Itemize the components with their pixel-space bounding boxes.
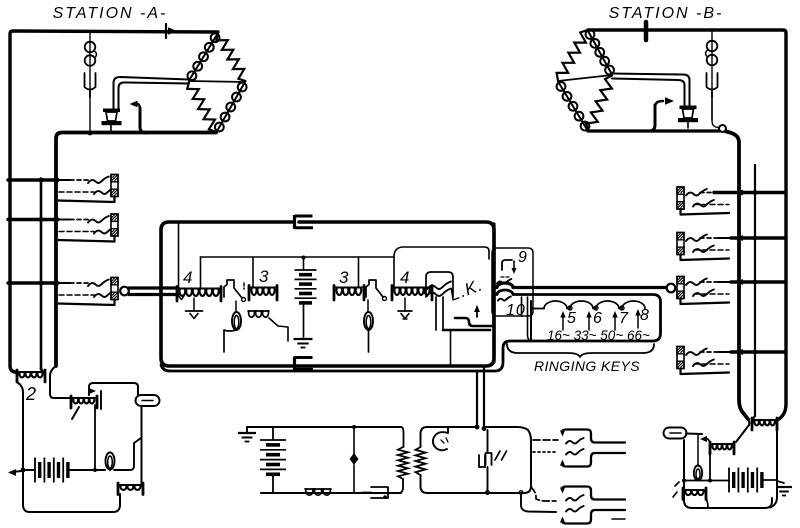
wire loop left A set [17,382,120,512]
svg-text:7: 7 [619,310,629,327]
svg-text:10: 10 [506,302,526,319]
contact mid vertical [350,427,359,493]
arrow on station A line [166,24,177,38]
wire phone A down to line [140,108,146,133]
wire bridge B diagonal [558,75,612,81]
ground battery [294,339,313,348]
svg-text:6: 6 [593,310,603,327]
coil A set lower right [118,483,143,495]
relay B1 coil [710,442,734,454]
wire bottom bottom-left circuit [261,492,401,494]
transmitter B [678,106,698,129]
receiver hook 11 [433,427,448,450]
transmitter A [102,109,122,132]
bus B x755 [754,165,756,416]
generator A [35,458,68,483]
drop 4R [393,257,395,288]
relay contact mid [366,280,387,301]
feeder B jack2 [731,235,786,241]
feeder B jack1 [714,190,786,196]
key10 drop a [521,297,523,316]
wire hook B right [686,433,702,436]
thin line top right [394,247,489,259]
wire box bottom pair b [483,366,485,430]
ground B set [776,481,792,496]
jack B2 [677,233,731,261]
receiver B [707,73,718,97]
wire line1 B [588,129,719,132]
label L.K. [447,275,486,305]
bus A x41 [40,180,43,369]
wire 11 to fork1 a [533,439,558,441]
drop 3L [252,257,254,288]
svg-text:3: 3 [339,268,349,287]
jack A2 [57,214,118,242]
main vertical right of box [492,224,495,362]
drop 4L a [178,224,180,288]
contact ticks B2 [673,482,679,497]
bus inside box [201,256,395,258]
feeder A jack3 [8,280,59,286]
wire top bottom-left circuit [247,425,401,429]
label 4 left [183,268,193,287]
svg-text:9: 9 [518,249,528,266]
label 2 [25,384,37,404]
jack A1 [57,175,118,203]
plug circle B [667,284,676,293]
wire 11 to fork1 b [533,451,556,453]
svg-text:RINGING KEYS: RINGING KEYS [534,358,640,374]
wire bus739 to relayB1 [736,419,749,442]
key 9 symbol [501,260,517,277]
wire bus10 into relay2 [10,366,17,373]
wire bus41 into relay2 [41,369,43,372]
contact 10 [498,297,511,301]
label 1 slash [72,407,79,419]
arrow generator A [8,469,22,476]
capacitor box bottom [295,357,314,371]
coil bridge A bottom-right arm [215,82,247,132]
thick jog lower [443,329,490,332]
svg-text:3: 3 [259,267,269,286]
key10 drop b [528,297,532,341]
key arrows [560,309,640,330]
svg-text:STATION -A-: STATION -A- [53,5,168,22]
small coil left [248,311,269,317]
label 11 slashes [495,451,507,460]
coil 4R [392,286,432,301]
hook arrow phone A [130,101,141,109]
brace ringing keys [507,344,654,357]
feeder A jack2 [8,217,59,223]
thick jog upper [455,318,492,326]
label 5 [567,310,577,327]
feeder B jack3 [731,279,786,285]
svg-text:16~ 33~ 50~ 66~: 16~ 33~ 50~ 66~ [547,328,650,343]
wire hook down A set [141,407,143,486]
label 10 [506,302,526,319]
wire lamp bottom B [682,479,729,483]
jack B1 [677,187,731,215]
svg-text:8: 8 [640,307,650,324]
hook arrow phone B [655,97,674,107]
vertical in 11 box [487,430,489,491]
coil B2 [683,488,706,500]
tick on station B line [644,22,649,40]
plug dot B line [719,125,726,132]
lamp B set [694,435,702,481]
hook switch circles B [706,41,718,66]
key 9 10 box [492,248,533,316]
ringing key contacts [531,301,645,310]
wire relay1 over to hook [89,383,138,396]
wire relay1 down [94,405,96,470]
wire cord A ring [129,293,178,296]
wire bus56 into relay1 [50,366,70,398]
relay 2 coil [17,370,45,382]
jack B3 [677,277,731,305]
arrow cluster [474,305,480,317]
capacitor box top [295,215,314,229]
drop 4L b [179,257,201,300]
svg-text:2: 2 [25,384,37,404]
wire coilALR to loop [119,494,121,505]
relay contact left [224,280,246,302]
repeater box outline [161,222,494,366]
label RINGING KEYS [534,358,640,374]
label 3 left [259,267,269,286]
wire phone B down to line [649,105,655,131]
contact squiggles right [427,282,451,297]
drop battery [302,256,306,271]
label 8 [640,307,650,324]
svg-text:5: 5 [567,310,577,327]
arrow relay1 [89,388,101,409]
generator B [729,468,762,493]
circuit 11 box [416,427,532,493]
wire lamp over up A set [114,438,141,470]
wire B loop right [770,424,777,508]
key bracket bottom mid [362,487,388,499]
resistor bridge A bottom-left arm [187,82,216,133]
coil bottom mid [305,489,331,495]
arrow B relay [700,436,710,444]
coil 4L [177,287,221,302]
lamp left [224,301,241,352]
coil 3L [249,286,277,301]
wire top-right main [588,30,786,419]
contact 9 [497,279,511,284]
coil bridge B bottom-left arm [557,82,590,132]
wire B loop left [684,440,772,508]
capacitor 11 [479,453,492,467]
svg-text:STATION -B-: STATION -B- [609,5,724,22]
wire 11 to fork2 b [521,493,556,512]
label 6 [593,310,603,327]
coil top B set [752,418,777,430]
label 4 right [400,268,410,287]
receiver line A [88,31,93,135]
lamp A set [106,453,115,471]
wire bus755 to top coil [753,416,755,420]
svg-text:4: 4 [183,268,193,287]
jack B4 [677,347,731,375]
wire battery leads bm [272,427,274,493]
coil 3R [334,286,364,301]
lamp right [364,300,373,352]
wire box bottom pair a [476,371,478,428]
wire line1 A [56,133,216,367]
wire cord A tip [129,286,178,289]
transformer left winding [398,427,408,493]
hook sleeve B set [664,428,687,439]
feeder B jack4 [731,349,786,355]
label STATION -B- [609,5,724,22]
feeder A jack1 [8,177,59,183]
wire small coil left down [269,318,288,341]
wire pair phone A to bridge [114,77,190,108]
spring connector fork2 [560,487,625,524]
wire receiver B to dot [712,97,718,128]
coil bridge B top-right arm [586,30,614,75]
hook switch circles A [85,42,97,66]
hook sleeve A set [136,395,160,406]
plug tip circle A [120,287,129,296]
resistor bridge B bottom-right arm [586,76,612,132]
label 7 [619,310,629,327]
ground bottom mid [238,427,256,442]
wire 11 to fork2 a [531,487,556,501]
receiver A [85,73,96,97]
ringing keys left edge [530,301,532,341]
wire bridge A diagonal [189,81,245,82]
battery main [295,270,317,303]
label 3 right [339,268,349,287]
battery bottom mid [260,440,286,474]
label 9 [518,249,528,266]
wire pair phone B to bridge [612,74,690,106]
spring connector fork1 [560,430,625,467]
drop 3R [358,257,360,288]
svg-text:4: 4 [400,268,410,287]
resistor bridge A top-right arm [216,33,245,81]
wire coil B2 down [706,498,708,507]
relay loop right [426,272,453,297]
ground 4R [398,298,412,319]
wire cord B ring with keys block [161,290,661,371]
bus B x739 [726,132,748,420]
wire generator right B [762,479,777,481]
label STATION -A- [53,5,168,22]
label frequencies [547,328,650,343]
wire battery down [303,303,305,337]
ground 4L [186,298,203,319]
fork2 tail tick [612,518,625,520]
receiver line B [711,31,713,120]
wire cord B tip [494,283,666,288]
cluster verticals [436,297,451,364]
coil bridge A top-left arm [188,33,220,81]
jack A3 [57,278,118,306]
wire top-left main and left bus [10,31,218,372]
junction dots pair [475,425,523,495]
wire main edge into B set [777,419,779,424]
wire relayB1 down [709,454,711,481]
wire generator leads A [21,468,105,473]
resistor bridge B top-left arm [557,30,588,81]
relay 1 coil [71,396,97,408]
